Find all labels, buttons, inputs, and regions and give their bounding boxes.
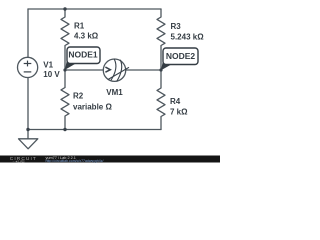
svg-text:V1: V1 <box>43 61 53 70</box>
svg-text:R2: R2 <box>73 92 84 101</box>
svg-text:R3: R3 <box>171 22 182 31</box>
svg-text:7 kΩ: 7 kΩ <box>170 107 188 116</box>
svg-text:~◄LAB: ~◄LAB <box>13 159 26 163</box>
svg-text:NODE1: NODE1 <box>68 50 98 60</box>
svg-text:NODE2: NODE2 <box>166 51 196 61</box>
svg-text:variable Ω: variable Ω <box>73 102 112 111</box>
svg-text:http://circuitlab.com/c/x77adw: http://circuitlab.com/c/x77adwsygh4z/ <box>46 159 104 163</box>
svg-text:R4: R4 <box>170 97 181 106</box>
svg-text:4.3 kΩ: 4.3 kΩ <box>74 32 99 41</box>
svg-text:10 V: 10 V <box>43 70 60 79</box>
svg-text:VM1: VM1 <box>106 88 123 97</box>
svg-text:5.243 kΩ: 5.243 kΩ <box>171 33 205 42</box>
svg-text:R1: R1 <box>74 22 85 31</box>
